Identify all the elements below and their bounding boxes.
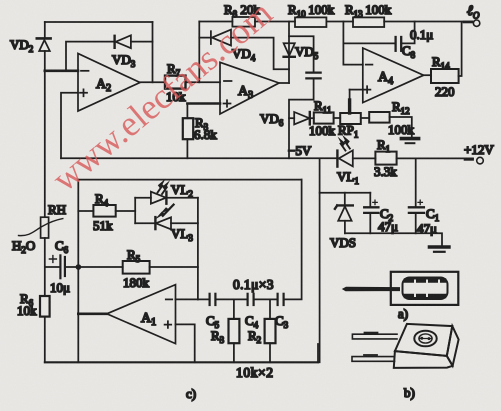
wire R7 to A3 [186, 81, 221, 83]
wire A3 noninverting (bold) [187, 102, 220, 105]
wire big box left [77, 180, 79, 363]
capacitor C6 [45, 255, 76, 278]
wire A4 noninverting [350, 89, 363, 91]
ground right [401, 139, 418, 144]
wire R8 top [199, 21, 295, 23]
resistor R4 [93, 205, 115, 217]
node +12V terminal [477, 157, 484, 164]
diode VD6 [289, 112, 314, 124]
wire VL box edges [135, 198, 198, 300]
wire C bottom to ground [345, 233, 442, 246]
potentiometer RP1 [340, 90, 361, 124]
wire R5 row [78, 266, 197, 268]
wire left main vertical upper [44, 22, 46, 38]
wire left main vertical lower [44, 238, 46, 362]
led VL2 [135, 179, 198, 204]
diode VD4 [211, 30, 231, 46]
capacitor C4 [248, 294, 278, 305]
package a lead [342, 287, 400, 292]
wire top-left horizontal [45, 21, 153, 23]
op-amp A1 [107, 285, 176, 344]
wire A1 noninverting [176, 324, 195, 362]
zener VDS [335, 193, 353, 234]
wire A2 output [140, 81, 165, 83]
wire VD4 branch [199, 38, 289, 70]
wire R10 to R13 [326, 21, 353, 23]
wire R14 up to output [459, 22, 462, 76]
resistor R13 [353, 17, 384, 27]
wire R4 left [78, 210, 93, 212]
resistor R14 [431, 69, 459, 83]
resistor R7 [165, 76, 186, 89]
diode VD3 [115, 35, 131, 48]
wire A2 inverting input (bold) [45, 70, 78, 73]
diode VD2 [37, 38, 51, 217]
wire A1 inverting row [176, 298, 210, 300]
wire R11 to RP1 [334, 117, 341, 119]
capacitor C2 [364, 193, 378, 234]
led VL1 [337, 135, 375, 167]
package a outline [391, 272, 459, 305]
led VL3 [135, 205, 198, 230]
resistor R3 [229, 299, 240, 362]
wire VD3 branch [66, 42, 153, 71]
wire A2 noninverting to rail [61, 93, 78, 159]
capacitor C7 branch [289, 36, 321, 158]
resistor RH [19, 217, 63, 238]
ground bottom-right [429, 247, 449, 252]
wire top to output terminal [384, 21, 472, 23]
op-amp A2 [78, 54, 140, 112]
wire R1 to +12V [397, 157, 473, 159]
resistor R12 [369, 112, 389, 123]
capacitor C5 [210, 294, 248, 305]
wire right vertical to bottom rail [319, 158, 321, 362]
resistor R11 [314, 112, 334, 123]
op-amp A4 [363, 48, 424, 103]
node junction dot [76, 264, 82, 270]
wire R12 to ground [390, 117, 412, 137]
wire VDS branch [320, 192, 371, 194]
package b body [394, 324, 459, 368]
wire RP1 to R12 [361, 117, 369, 119]
wire A4 inverting branch [343, 22, 362, 65]
scan noise [0, 0, 1, 1]
wire R8 left vertical [198, 22, 200, 83]
wire big box top [78, 179, 301, 181]
wire A4 output [424, 74, 431, 76]
wire bottom right stub [317, 344, 319, 362]
resistor R8 [232, 17, 255, 27]
capacitor C8 [343, 22, 414, 51]
wire big box right [301, 180, 303, 299]
wire bottom rail [45, 361, 318, 363]
wire A1 output (bold) [78, 312, 107, 315]
capacitor C1 [409, 158, 424, 233]
op-amp A3 [220, 62, 279, 114]
node output terminal [473, 20, 479, 26]
resistor R1 [375, 152, 396, 165]
resistor R10 [295, 17, 326, 27]
wire A3 output [279, 82, 289, 84]
wire R4 to VL box [116, 210, 136, 212]
resistor R2 [265, 299, 276, 362]
resistor R5 [123, 261, 150, 274]
diode VD5 [284, 22, 295, 84]
capacitor C3 [278, 294, 302, 305]
wire -5V +12V rail [61, 157, 337, 159]
resistor R9 [183, 104, 193, 159]
wire A2 feedback vertical [152, 22, 154, 82]
package b leads [352, 333, 397, 362]
resistor R6 [40, 296, 50, 317]
